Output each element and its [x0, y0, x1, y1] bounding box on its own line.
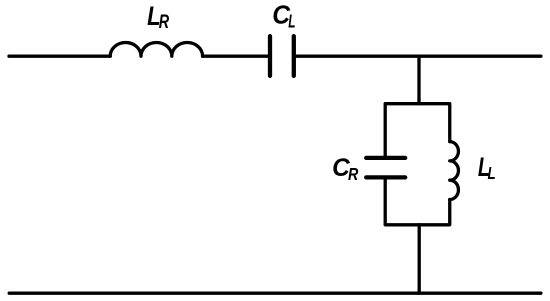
- value label L_L: [478, 152, 496, 183]
- node A: tank top (left side upper, top edge, right side upper): [385, 104, 450, 156]
- inductor L_L (shunt, 3 humps bulging right): [450, 142, 459, 200]
- wire: stub from top-rail junction down to tank top: [417, 56, 420, 103]
- value label L_R: [147, 2, 170, 33]
- wire: top rail, left segment from input to L_R: [9, 55, 110, 58]
- capacitor C_L (series, two vertical plates): [270, 36, 294, 76]
- inductor L_R (series, 3 humps): [110, 42, 202, 56]
- node B: tank bottom (left side lower, bottom edge, right side lower): [385, 180, 450, 225]
- svg-text:L: L: [288, 12, 295, 32]
- value label C_L: [272, 1, 295, 32]
- capacitor C_R (shunt, two horizontal plates): [366, 158, 405, 178]
- svg-text:L: L: [488, 164, 496, 183]
- value label C_R: [332, 155, 358, 184]
- wire: top rail, right segment from C_L to output: [296, 55, 541, 58]
- svg-text:R: R: [159, 11, 170, 33]
- svg-text:R: R: [348, 165, 359, 185]
- wire: stub from tank bottom down to bottom rail: [418, 225, 421, 293]
- wire: top rail segment between L_R and C_L: [203, 55, 268, 58]
- wire: bottom rail (ground return): [9, 292, 541, 295]
